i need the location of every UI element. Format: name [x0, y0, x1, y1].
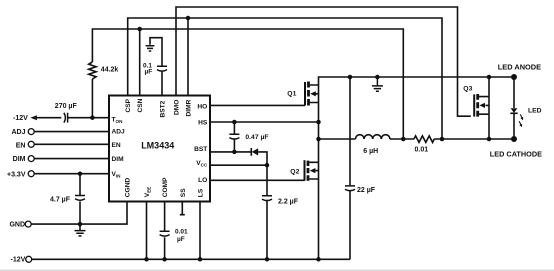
wire B: CSP to DIMR to LED cathode node — [128, 18, 442, 139]
wire diode anode to VCC node — [258, 152, 267, 165]
wire sense to LED cathode — [434, 138, 514, 140]
wire input cap vertical — [349, 77, 351, 185]
capacitor C5 0.47uF — [229, 134, 239, 139]
wire Q1 drain up to GND rail — [319, 77, 514, 85]
node HS / 0.47uF junction — [232, 120, 237, 125]
terminal DIM — [28, 156, 34, 162]
svg-text:µF: µF — [177, 236, 185, 243]
terminal LED CATHODE — [511, 136, 517, 142]
wire 0.01uF to rail — [164, 237, 166, 259]
wire VCC — [210, 164, 267, 166]
wire 44.2k bottom — [91, 79, 93, 118]
ground near BST2 — [146, 46, 155, 51]
svg-text:22 µF: 22 µF — [357, 187, 376, 194]
LED light arrows — [520, 114, 522, 118]
capacitor C6 2.2uF — [262, 196, 272, 201]
svg-text:EN: EN — [112, 142, 121, 149]
node CSN sense junction — [401, 137, 406, 142]
wire -12V to cap — [37, 117, 61, 119]
svg-text:CSN: CSN — [137, 98, 144, 112]
svg-text:BST2: BST2 — [160, 100, 167, 117]
svg-text:LED: LED — [528, 108, 542, 115]
terminal GND — [25, 221, 31, 227]
svg-text:µF: µF — [145, 69, 153, 76]
node VIN / 4.7uF junction — [78, 171, 83, 176]
node 2.2uF / rail junction — [265, 257, 270, 262]
node 44.2k / T_ON junction — [90, 115, 95, 120]
svg-text:+3.3V: +3.3V — [7, 171, 26, 178]
svg-text:44.2k: 44.2k — [101, 66, 119, 73]
capacitor C4 0.01uF — [160, 231, 170, 236]
terminal +3.3V — [28, 171, 34, 177]
wire cap to T_ON pin — [68, 117, 109, 119]
wire 0.47uF branch — [233, 122, 235, 134]
capacitor C1 270uF — [64, 113, 68, 123]
wire A: DMO to Q3 gate — [176, 7, 471, 116]
wire BST — [210, 151, 251, 153]
node Q3 source junction — [487, 137, 492, 142]
svg-text:LS: LS — [198, 188, 205, 197]
svg-text:2.2 µF: 2.2 µF — [278, 198, 299, 205]
svg-text:DIM: DIM — [112, 156, 125, 163]
wire GND to CGND — [31, 202, 127, 225]
node LS / rail junction — [198, 257, 203, 262]
node GND wire junction — [78, 222, 83, 227]
wire COMP down — [164, 202, 166, 231]
svg-text:CSP: CSP — [125, 98, 132, 112]
wire BST2 pin up — [161, 71, 163, 96]
capacitor C7 22uF — [345, 186, 355, 191]
wire Q1 source to Q2 drain (switch node) — [318, 103, 320, 163]
wire DIM — [34, 158, 109, 160]
LED D2 — [513, 77, 515, 108]
wire DIMR vertical — [187, 18, 189, 96]
ground below 4.7uF — [75, 224, 86, 236]
inductor L1 6uH — [356, 135, 390, 139]
svg-text:BST: BST — [194, 146, 207, 153]
svg-text:GND: GND — [9, 222, 25, 229]
terminal -12V (bottom) — [26, 256, 32, 262]
wire VCC down to 2.2uF — [266, 165, 268, 195]
svg-text:HO: HO — [197, 103, 207, 110]
wire HS — [210, 121, 319, 123]
wire Q3 source down — [488, 114, 490, 139]
node Q3 drain / GND wire junction — [487, 75, 492, 80]
resistor R2 0.01 — [414, 136, 434, 143]
resistor R1 44.2k — [89, 62, 96, 79]
wire 22uF to rail corner — [349, 190, 351, 259]
wire switch node to inductor — [319, 138, 356, 140]
wire 0.47uF to BST wire — [233, 138, 235, 152]
svg-text:Q3: Q3 — [463, 86, 472, 93]
svg-text:DIM: DIM — [13, 156, 26, 163]
svg-text:4.7 µF: 4.7 µF — [50, 196, 71, 203]
terminal EN — [28, 141, 34, 147]
svg-text:LO: LO — [198, 177, 207, 184]
svg-text:COMP: COMP — [162, 177, 169, 197]
svg-text:CGND: CGND — [125, 178, 132, 198]
svg-text:DMO: DMO — [174, 100, 181, 115]
wire LO to Q2 gate — [210, 179, 305, 181]
node DIMR junction — [186, 16, 191, 21]
wire Q2 source down to rail — [318, 179, 320, 259]
wire VEE down — [146, 202, 148, 260]
svg-text:270 µF: 270 µF — [55, 103, 78, 110]
svg-text:-12V: -12V — [11, 257, 26, 264]
transistor Q2 — [305, 160, 319, 181]
terminal LED ANODE — [511, 74, 517, 80]
svg-text:HS: HS — [198, 119, 208, 126]
node wire B junction — [440, 137, 445, 142]
node GND rail / input cap junction — [348, 75, 353, 80]
svg-text:EN: EN — [16, 142, 26, 149]
node VEE / rail junction — [144, 257, 149, 262]
wire inductor to resistor — [390, 138, 414, 140]
svg-text:0.01: 0.01 — [175, 229, 188, 236]
transistor Q1 — [305, 82, 319, 106]
node switch/inductor junction — [316, 137, 321, 142]
ground on GND rail — [375, 75, 380, 80]
IC pin labels — [112, 98, 208, 197]
node HS / switch bus junction — [316, 120, 321, 125]
svg-text:0.47 µF: 0.47 µF — [245, 134, 268, 141]
svg-text:ADJ: ADJ — [11, 129, 25, 136]
wire LS down — [199, 202, 201, 260]
wire C: 44.2k top / CSN to sense node — [92, 29, 403, 139]
terminal ADJ — [28, 129, 34, 135]
wire Q3 drain up — [488, 77, 490, 97]
svg-text:LED ANODE: LED ANODE — [498, 62, 541, 71]
wire ADJ — [34, 131, 109, 133]
wire EN — [34, 143, 109, 145]
svg-text:6 µH: 6 µH — [363, 148, 378, 155]
svg-text:-12V: -12V — [13, 115, 28, 122]
terminal -12V arrow (top left) — [30, 115, 37, 120]
node Q2 source / rail junction — [316, 257, 321, 262]
wire 4.7uF top — [79, 174, 81, 195]
IC U1 LM3434 body — [109, 96, 210, 202]
wire HO to Q1 gate — [210, 104, 305, 106]
svg-text:DIMR: DIMR — [186, 99, 193, 116]
capacitor C2 0.1uF — [157, 66, 167, 71]
node BST / 0.47uF junction — [232, 150, 237, 155]
wire 2.2uF to rail — [266, 200, 268, 259]
node CSN junction — [137, 27, 142, 32]
transistor Q3 — [474, 94, 489, 117]
svg-text:LED CATHODE: LED CATHODE — [490, 149, 542, 158]
svg-text:LM3434: LM3434 — [141, 141, 174, 151]
pin SS no-connect stub — [180, 202, 185, 215]
diode D1 — [250, 148, 252, 156]
wire -12V rail — [32, 258, 350, 260]
wire BST2 cap to ground — [150, 38, 162, 67]
svg-text:Q2: Q2 — [290, 169, 299, 176]
svg-text:SS: SS — [180, 188, 187, 197]
wire CSN vertical — [139, 29, 141, 96]
wire 4.7uF bottom — [79, 202, 81, 225]
node COMP cap / rail junction — [162, 257, 167, 262]
node VCC junction — [265, 163, 270, 168]
wire +3.3V / VIN — [34, 173, 109, 175]
svg-text:Q1: Q1 — [287, 90, 296, 97]
svg-text:0.01: 0.01 — [415, 146, 429, 153]
svg-text:ADJ: ADJ — [112, 129, 126, 136]
capacitor C3 4.7uF — [75, 196, 85, 201]
